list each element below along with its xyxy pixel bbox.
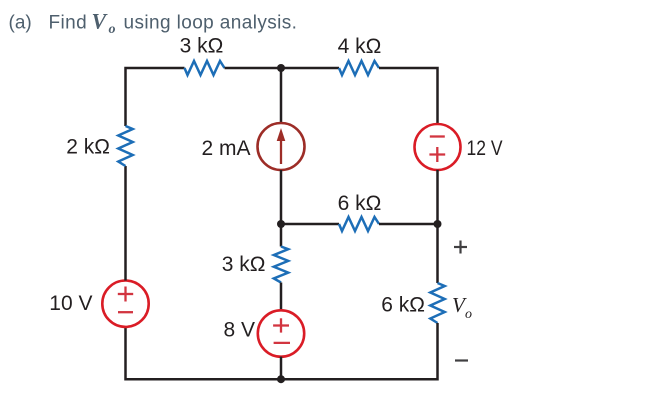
svg-text:o: o (109, 22, 116, 37)
svg-text:V: V (92, 9, 109, 34)
resistor 2 kΩ (left) (66, 126, 132, 166)
wire: top-left corner (top wire to left wire) (126, 68, 185, 126)
wire: middle branch, current source to node B (280, 170, 283, 247)
svg-text:12 V: 12 V (467, 137, 503, 160)
wire: right wire 12V to mid node (436, 170, 439, 283)
wire: right wire below Vo resistor + bottom wire + left wire up to 10V source (126, 323, 438, 379)
svg-text:6 kΩ: 6 kΩ (381, 294, 425, 317)
svg-text:3 kΩ: 3 kΩ (180, 35, 224, 58)
wire: middle horizontal left segment (281, 223, 339, 226)
resistor 3 kΩ (top) (180, 35, 225, 76)
svg-text:Find: Find (49, 13, 88, 34)
svg-text:10 V: 10 V (49, 292, 92, 315)
wire: middle horizontal right segment (379, 223, 438, 226)
wire: middle branch top (node A down to current source) (280, 68, 283, 123)
resistor 6 kΩ (middle horizontal) (338, 192, 382, 231)
node: junction dot middle-left (3kΩ branch / 6kΩ) (277, 220, 285, 228)
wire: left wire between 2kΩ and 10V source (124, 166, 127, 281)
wire: top middle segment (225, 67, 340, 70)
svg-text:4 kΩ: 4 kΩ (338, 35, 382, 58)
node: junction dot middle-right (6kΩ / right wire) (434, 220, 442, 228)
svg-text:2 kΩ: 2 kΩ (66, 136, 110, 159)
resistor 3 kΩ (middle) (222, 247, 288, 283)
svg-text:8 V: 8 V (223, 319, 255, 342)
resistor 6 kΩ (right, Vo) (381, 283, 444, 323)
minus sign (Vo polarity) (455, 359, 468, 361)
label Vo (452, 293, 472, 322)
plus sign (Vo polarity) (454, 241, 467, 254)
title (9, 9, 298, 38)
svg-text:(a): (a) (9, 13, 32, 34)
current source 2 mA (201, 123, 304, 170)
svg-text:6 kΩ: 6 kΩ (338, 192, 382, 215)
voltage source 12 V (415, 124, 503, 170)
node: junction dot bottom (8V branch / bottom wire) (277, 375, 285, 383)
svg-text:using loop analysis.: using loop analysis. (124, 13, 298, 34)
wire: middle branch bottom (8V to bottom wire) (280, 357, 283, 380)
wire: middle branch, 3kΩ to 8V source (280, 283, 283, 311)
resistor 4 kΩ (top) (338, 35, 382, 75)
svg-text:2 mA: 2 mA (201, 137, 250, 160)
svg-text:o: o (465, 307, 472, 322)
svg-text:3 kΩ: 3 kΩ (222, 253, 266, 276)
node: junction dot top (3kΩ/4kΩ/2mA) (277, 64, 285, 72)
voltage source 8 V (223, 310, 304, 356)
wire: top-right corner (top wire to right wire) (379, 68, 438, 125)
voltage source 10 V (49, 281, 148, 327)
